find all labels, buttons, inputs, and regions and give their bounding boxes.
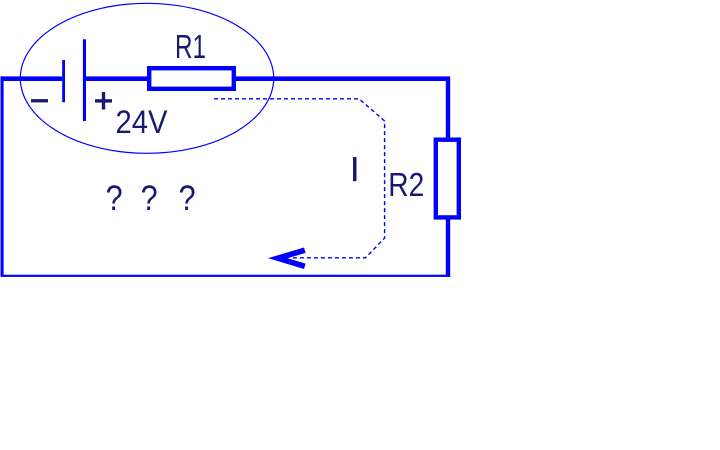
- resistor R2 body: [436, 140, 459, 218]
- svg-text:?: ?: [141, 178, 158, 218]
- battery minus sign: [31, 99, 48, 102]
- svg-text:24V: 24V: [116, 103, 168, 140]
- ellipse highlight around source and R1: [20, 3, 273, 153]
- wire battery to R1: [86, 76, 150, 81]
- label I (current): [353, 157, 357, 181]
- svg-text:?: ?: [106, 178, 123, 218]
- wire R1 to top-right corner: [233, 76, 448, 81]
- battery plus sign horizontal: [95, 99, 112, 102]
- battery B1 negative plate (short): [62, 60, 65, 102]
- battery B1 positive plate (long): [83, 39, 86, 121]
- battery plus sign vertical: [102, 92, 105, 110]
- wire right vertical: [446, 76, 450, 277]
- wire left vertical: [1, 76, 4, 276]
- svg-text:R2: R2: [388, 166, 424, 203]
- current direction arrow: [278, 250, 305, 266]
- wire bottom: [1, 275, 450, 277]
- current loop dotted path: [214, 99, 385, 258]
- resistor R1 body: [149, 68, 234, 89]
- wire top-left segment: [1, 76, 63, 81]
- svg-text:R1: R1: [175, 29, 206, 66]
- svg-text:?: ?: [179, 178, 196, 218]
